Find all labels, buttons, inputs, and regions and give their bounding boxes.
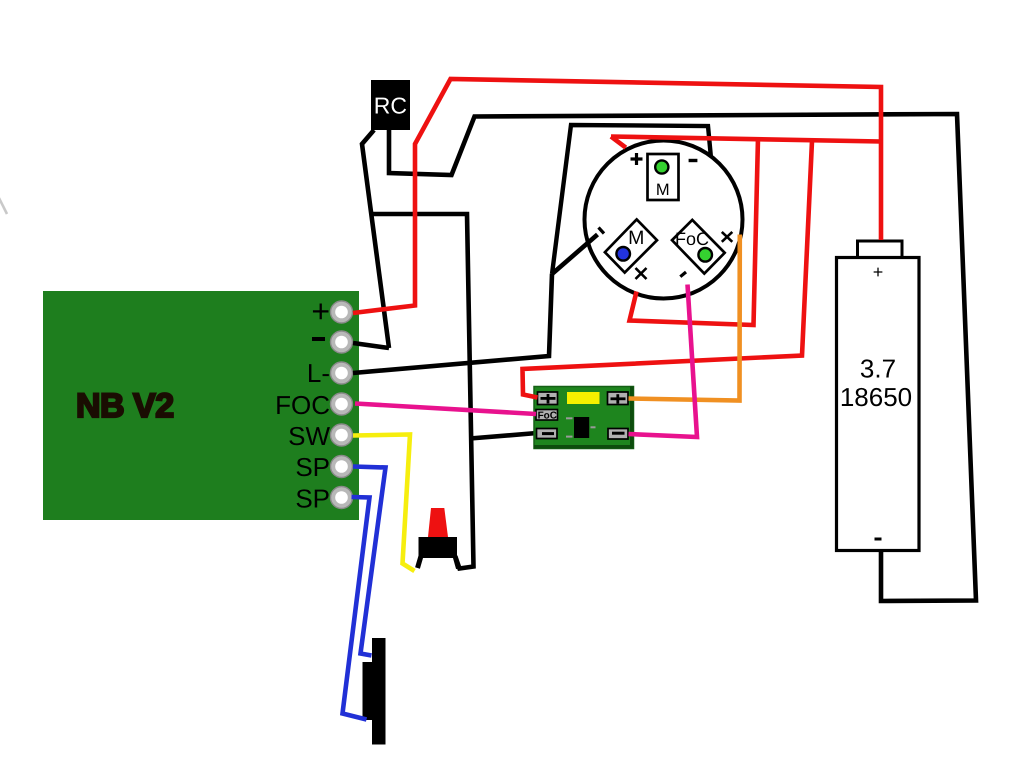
- svg-text:+: +: [873, 262, 884, 282]
- svg-text:SP: SP: [295, 484, 330, 514]
- svg-text:3.7: 3.7: [860, 354, 896, 384]
- svg-text:FOC: FOC: [275, 390, 330, 420]
- svg-text:SW: SW: [288, 421, 330, 451]
- svg-text:NB V2: NB V2: [76, 387, 174, 425]
- svg-text:L-: L-: [307, 358, 330, 388]
- svg-text:SP: SP: [295, 452, 330, 482]
- svg-text:FoC: FoC: [675, 229, 709, 249]
- svg-text:M: M: [628, 227, 644, 249]
- svg-text:18650: 18650: [840, 382, 912, 412]
- svg-text:FoC: FoC: [538, 410, 557, 421]
- svg-text:M: M: [656, 181, 670, 199]
- svg-text:RC: RC: [374, 93, 407, 119]
- svg-text:+: +: [311, 293, 330, 329]
